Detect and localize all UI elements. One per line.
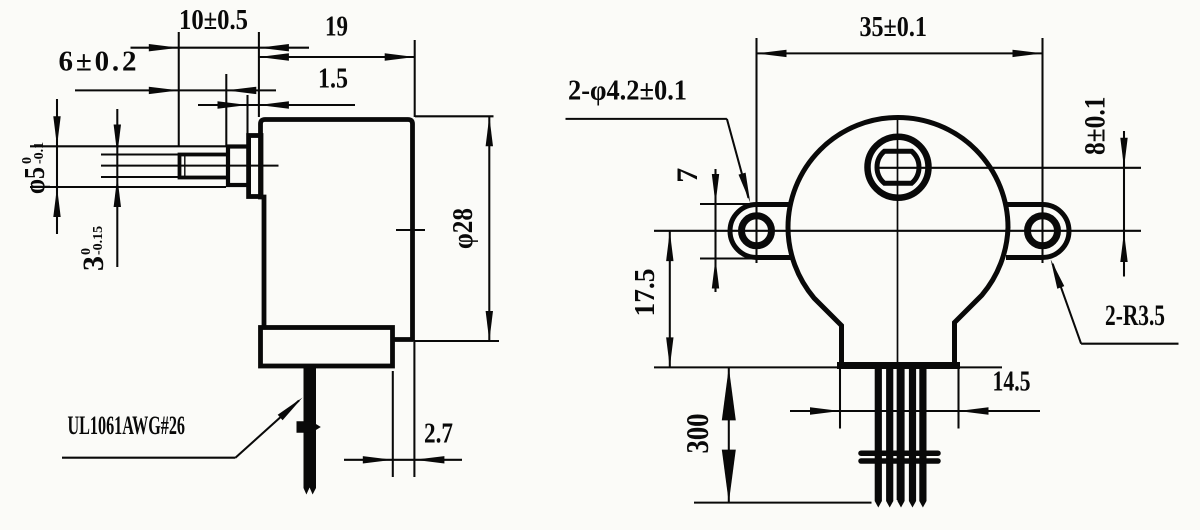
svg-text:14.5: 14.5 bbox=[993, 366, 1031, 398]
svg-text:-0.1: -0.1 bbox=[32, 142, 47, 164]
svg-text:7: 7 bbox=[671, 168, 704, 183]
svg-text:φ5: φ5 bbox=[19, 167, 51, 194]
svg-text:1.5: 1.5 bbox=[318, 63, 348, 95]
svg-text:8±0.1: 8±0.1 bbox=[1079, 97, 1112, 156]
svg-text:-0.15: -0.15 bbox=[91, 226, 106, 255]
svg-text:10±0.5: 10±0.5 bbox=[179, 4, 248, 36]
svg-text:17.5: 17.5 bbox=[629, 269, 661, 317]
svg-text:UL1061AWG#26: UL1061AWG#26 bbox=[68, 411, 186, 440]
svg-text:2.7: 2.7 bbox=[424, 418, 453, 450]
svg-text:φ28: φ28 bbox=[447, 208, 479, 249]
svg-text:19: 19 bbox=[325, 11, 348, 43]
svg-text:2-φ4.2±0.1: 2-φ4.2±0.1 bbox=[568, 75, 687, 107]
svg-text:6±0.2: 6±0.2 bbox=[59, 46, 137, 78]
svg-text:35±0.1: 35±0.1 bbox=[859, 11, 927, 43]
svg-text:3: 3 bbox=[77, 256, 110, 271]
svg-text:2-R3.5: 2-R3.5 bbox=[1105, 299, 1165, 332]
svg-text:300: 300 bbox=[679, 414, 715, 454]
